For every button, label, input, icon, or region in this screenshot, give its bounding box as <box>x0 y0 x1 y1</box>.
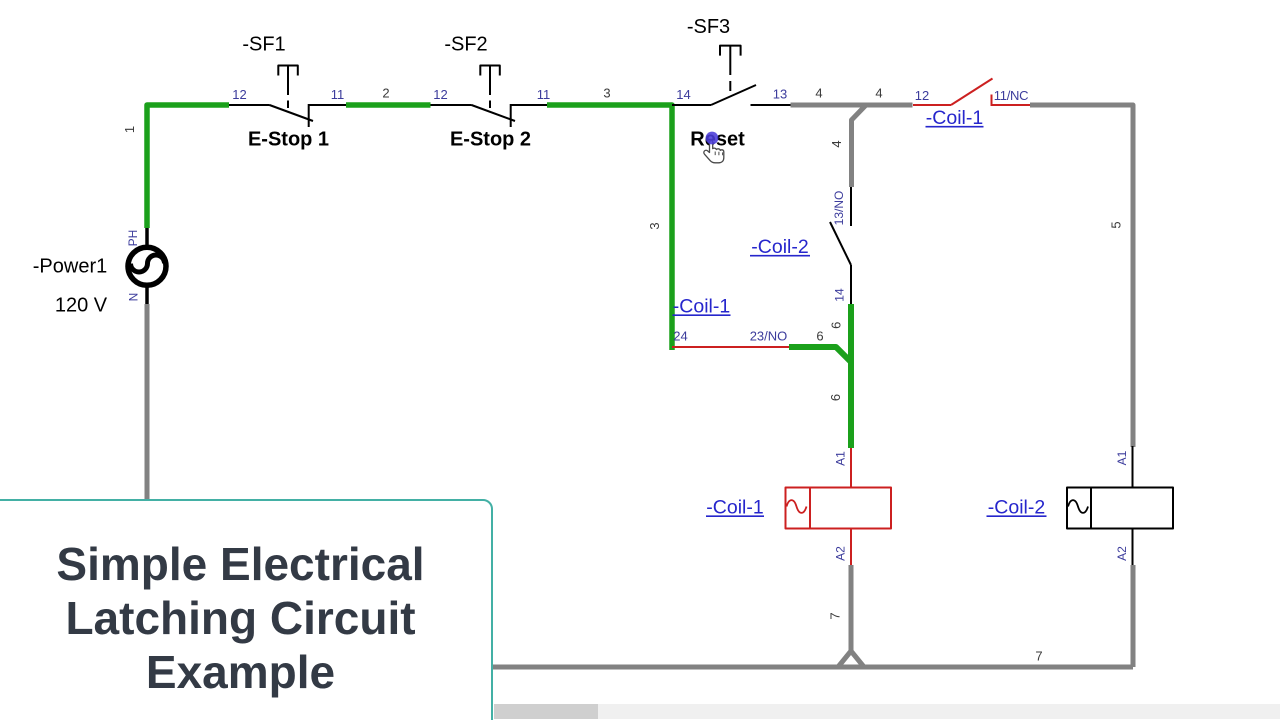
svg-text:13: 13 <box>773 87 787 102</box>
svg-text:PH: PH <box>126 230 140 247</box>
wire 4 branch (gray, to Coil-2 contact) <box>852 105 867 187</box>
svg-text:7: 7 <box>1035 649 1042 664</box>
svg-text:-Power1: -Power1 <box>33 256 107 278</box>
svg-text:A2: A2 <box>1115 546 1129 561</box>
svg-text:A1: A1 <box>834 451 848 466</box>
svg-text:E-Stop 1: E-Stop 1 <box>248 129 329 151</box>
svg-text:11: 11 <box>537 87 551 102</box>
svg-text:N: N <box>127 293 141 302</box>
switch SF2 E-Stop 2 <box>431 66 548 128</box>
svg-text:14: 14 <box>833 288 847 302</box>
switch SF3 Reset <box>672 46 791 105</box>
svg-text:24: 24 <box>673 329 687 344</box>
wire 6 (green vertical) <box>848 304 854 448</box>
svg-text:13/NO: 13/NO <box>832 191 846 226</box>
svg-text:-Coil-1: -Coil-1 <box>673 296 730 318</box>
svg-text:4: 4 <box>829 140 844 147</box>
svg-text:11: 11 <box>331 87 345 102</box>
wire coil-1 A2 lead (red) <box>850 529 852 567</box>
power source U1 -Power1 circle <box>128 247 166 285</box>
wire coil-1 A1 lead (red) <box>850 448 852 488</box>
svg-text:14: 14 <box>676 87 690 102</box>
scrollbar thumb <box>494 704 598 719</box>
svg-text:3: 3 <box>603 86 610 101</box>
svg-text:5: 5 <box>1109 221 1124 228</box>
svg-text:6: 6 <box>828 394 843 401</box>
svg-text:4: 4 <box>815 86 822 101</box>
wire 1 (green, from E-Stop1 to power source) <box>147 105 229 228</box>
coil K2 -Coil-2 (black box) <box>1067 488 1173 529</box>
svg-text:6: 6 <box>829 322 844 329</box>
cursor pointer <box>704 132 724 163</box>
svg-text:2: 2 <box>382 86 389 101</box>
wire 5 (gray, right side down) <box>1030 105 1133 447</box>
title card <box>0 499 493 720</box>
wire 7 right (gray, coil-2 down to bus) <box>1131 565 1136 667</box>
svg-text:-Coil-2: -Coil-2 <box>988 497 1045 519</box>
svg-text:-SF2: -SF2 <box>444 34 487 56</box>
svg-text:12: 12 <box>915 88 929 103</box>
svg-text:E-Stop 2: E-Stop 2 <box>450 129 531 151</box>
junction Y at bus <box>838 651 864 667</box>
svg-text:-SF3: -SF3 <box>687 16 730 38</box>
underline -Coil-2 coil <box>987 515 1047 517</box>
wire 2 (green) <box>346 102 431 108</box>
coil K1 -Coil-1 (red box) <box>786 488 892 529</box>
power source sine symbol <box>131 255 165 272</box>
wire 6 (green elbow) <box>789 347 851 362</box>
underline -Coil-2 <box>750 255 810 257</box>
svg-text:3: 3 <box>647 222 662 229</box>
svg-text:1: 1 <box>122 126 137 133</box>
scrollbar track <box>494 704 1280 719</box>
svg-text:-Coil-1: -Coil-1 <box>706 497 763 519</box>
svg-text:12: 12 <box>433 87 447 102</box>
svg-text:7: 7 <box>828 612 843 619</box>
svg-text:120 V: 120 V <box>55 295 108 317</box>
wire 7 (gray, coil-1 down) <box>849 565 854 651</box>
svg-text:-Coil-2: -Coil-2 <box>751 236 808 258</box>
wire coil-2 A2 lead <box>1132 529 1134 567</box>
wire neutral (gray, down behind card) <box>145 304 150 503</box>
underline -Coil-1 NC <box>926 126 984 128</box>
svg-text:-Coil-1: -Coil-1 <box>926 107 983 129</box>
wire 3 (green, horizontal + vertical drop) <box>547 105 672 350</box>
underline -Coil-1 <box>673 314 731 316</box>
wire coil-2 A1 lead <box>1132 446 1134 488</box>
wire 7 bottom bus (gray) <box>492 665 1133 670</box>
wire power source bottom lead <box>145 285 149 305</box>
underline -Coil-1 coil <box>706 515 764 517</box>
wire 4 (gray, top) <box>791 103 913 108</box>
svg-text:4: 4 <box>875 86 882 101</box>
contact -Coil-1 23/24 closed (red) <box>672 346 789 348</box>
svg-text:11/NC: 11/NC <box>994 88 1028 103</box>
svg-text:12: 12 <box>232 87 246 102</box>
svg-text:-SF1: -SF1 <box>242 34 285 56</box>
svg-text:6: 6 <box>816 329 823 344</box>
svg-text:23/NO: 23/NO <box>750 329 788 344</box>
contact -Coil-1 11/12 NC open (red) <box>913 79 1030 107</box>
svg-text:A1: A1 <box>1115 450 1129 465</box>
switch SF1 E-Stop 1 <box>229 66 346 128</box>
wire power source top lead <box>145 228 149 248</box>
contact -Coil-2 13/14 NO <box>830 187 851 304</box>
svg-text:A2: A2 <box>834 546 848 561</box>
